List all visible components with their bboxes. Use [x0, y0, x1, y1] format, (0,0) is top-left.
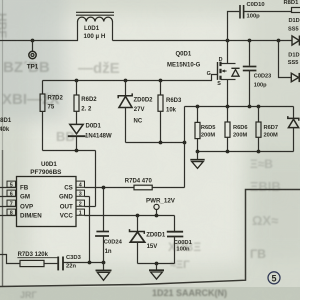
bleed-through text from page reverse: [0, 13, 281, 271]
pin 4 CS: [76, 181, 134, 189]
node junction C0D23 bottom: [248, 105, 252, 109]
capacitor C0D24: [95, 188, 123, 263]
section boundary line with step: [0, 190, 300, 287]
diode OVP right column: [288, 107, 299, 152]
capacitor C0D23: [243, 41, 271, 107]
node junction drain/C0D10: [226, 39, 230, 43]
wire: C0D10 branch riser: [228, 12, 240, 41]
scan left border: [2, 0, 4, 287]
wire: OUT feedback to gate drive chain: [43, 151, 96, 207]
ground PWR: [149, 264, 164, 280]
node junction D0D1 bottom: [75, 149, 79, 153]
partial label R8D1 240k at left edge: [0, 118, 12, 133]
pin 1 VCC: [76, 209, 175, 217]
wire: FB loop entry from left edge: [0, 255, 20, 264]
resistor R6D7: [256, 107, 278, 152]
node junction R6D5 top: [196, 105, 200, 109]
node junction sense riser: [183, 141, 187, 145]
node junction ZD0D2 top: [124, 79, 128, 83]
pin 2 OUT: [76, 200, 96, 208]
diode D1D2 on top rail at right edge: [288, 18, 300, 46]
node junction CS / C0D24: [102, 186, 106, 190]
wire: CS sense riser: [184, 107, 186, 188]
capacitor C0D10: [240, 2, 265, 20]
node junction R6D7 bottom: [257, 150, 261, 154]
pin 3 GND: [76, 190, 90, 198]
wire: GND pin drop: [89, 197, 91, 263]
wire: top rail right of inductor: [113, 22, 293, 41]
op-amp U0D1 PF7906BS controller: [17, 161, 77, 227]
resistor R6D2: [74, 81, 97, 125]
resistor R7D2: [40, 81, 63, 151]
node junction R6D3 bottom: [159, 141, 163, 145]
node junction on rail at TP1: [31, 39, 35, 43]
test point TP1: [27, 41, 39, 71]
node junction PWR ground: [155, 262, 159, 266]
node PWR_12V: [146, 198, 176, 216]
zener ZD0D1: [130, 216, 166, 264]
resistor R7D3: [17, 252, 58, 267]
pin 7 OVP: [0, 200, 17, 208]
node junction R6D7 top: [257, 105, 261, 109]
bleed text bottom strip: [20, 288, 227, 300]
resistor R6D3: [158, 81, 182, 143]
resistor R6D6: [225, 107, 248, 152]
node junction PWR_12V tap: [155, 214, 159, 218]
ground under sense rail: [190, 152, 204, 169]
wire: zener/R6D3 bottom rail to sense node: [126, 142, 185, 144]
node junction GND drop: [88, 261, 92, 265]
ground left: [96, 263, 112, 281]
pin 8 DIM/EN: [0, 209, 17, 217]
node junction ZD0D1 top: [136, 214, 140, 218]
zener ZD0D2: [118, 81, 153, 143]
diode D0D1: [68, 124, 112, 151]
wire: main top rail from left edge: [0, 22, 78, 41]
capacitor C00D1: [167, 216, 193, 264]
section marker circled 5: [268, 272, 280, 284]
resistor R7D4: [125, 179, 185, 190]
node junction ground rail left: [196, 150, 200, 154]
wire: drain/source rail: [185, 106, 294, 108]
pin 6 GM: [0, 190, 17, 198]
node junction source/R6D6: [226, 105, 230, 109]
wire: left ground rail: [63, 262, 104, 264]
resistor R6D5: [195, 107, 215, 152]
wire: D1D3 branch: [279, 41, 292, 78]
node junction R6D6 bottom: [226, 150, 230, 154]
pin 5 FB: [0, 181, 17, 189]
diode D1D3: [288, 53, 300, 83]
node junction C0D23 top: [248, 39, 252, 43]
inductor L0D1: [76, 12, 114, 40]
node junction D1D3 branch: [277, 39, 281, 43]
wire: C0D10 to R8D1: [244, 11, 292, 13]
node junction R6D3 top: [159, 79, 163, 83]
capacitor C3D3: [58, 255, 81, 270]
resistor R8D1 (cut at right edge): [284, 0, 302, 12]
node junction R6D2 top: [75, 79, 79, 83]
wire: sense resistor bottom rail: [198, 151, 294, 153]
wire: PWR group bottom rail: [138, 263, 175, 265]
node junction C0D24 bottom: [102, 261, 106, 265]
transistor Q0D1 MOSFET: [167, 41, 240, 107]
wire: gate rail: [43, 75, 218, 81]
